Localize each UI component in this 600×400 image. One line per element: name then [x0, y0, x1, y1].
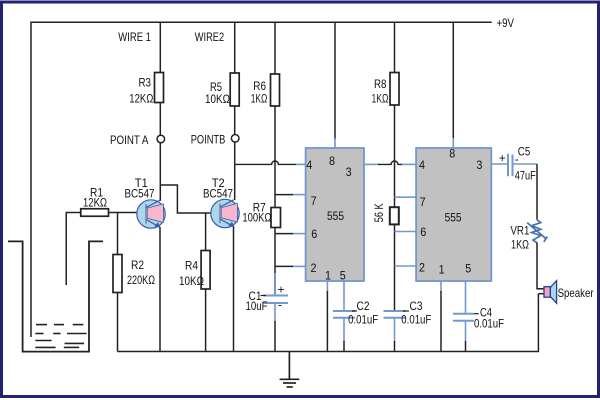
wire T1 emitter to rail	[159, 227, 161, 352]
svg-text:220KΩ: 220KΩ	[127, 273, 155, 287]
wire U1 pin5 to C2	[343, 281, 345, 311]
wire T2 collector junction to 555 U1 pin4 (hop over R6 line)	[235, 161, 297, 164]
svg-text:VR1: VR1	[510, 223, 529, 237]
capacitor C3	[384, 310, 406, 312]
svg-text:4: 4	[419, 158, 425, 172]
resistor R7	[271, 208, 281, 228]
svg-text:0.01uF: 0.01uF	[348, 313, 378, 327]
wire C4 to rail	[465, 321, 467, 342]
svg-text:BC547: BC547	[125, 186, 155, 200]
wire VR1 to speaker top terminal	[537, 243, 544, 289]
svg-text:BC547: BC547	[203, 186, 233, 200]
svg-text:+: +	[499, 151, 506, 165]
svg-text:C3: C3	[410, 299, 423, 313]
svg-text:10uF: 10uF	[246, 299, 268, 313]
wire R8 down to 56K (passes under hop)	[394, 105, 396, 207]
wire C5 to VR1	[513, 163, 538, 165]
wire U2 pin6 to 56K bottom	[395, 231, 417, 233]
svg-text:12KΩ: 12KΩ	[129, 91, 153, 105]
svg-text:1KΩ: 1KΩ	[372, 91, 389, 105]
wire U2 pin8 to +9V rail	[452, 22, 454, 140]
svg-text:1: 1	[325, 268, 331, 282]
svg-text:555: 555	[327, 209, 344, 223]
svg-text:1KΩ: 1KΩ	[251, 91, 268, 105]
resistor R2	[113, 255, 122, 293]
svg-text:5: 5	[340, 268, 346, 282]
svg-text:0.01uF: 0.01uF	[474, 317, 504, 331]
svg-text:3: 3	[346, 165, 352, 179]
resistor 56K	[390, 207, 399, 224]
svg-text:1KΩ: 1KΩ	[511, 237, 529, 251]
wire U1 pin2 to C1 line	[292, 265, 306, 267]
svg-text:555: 555	[445, 210, 462, 224]
svg-text:56 K: 56 K	[372, 203, 386, 222]
svg-text:2: 2	[419, 261, 425, 275]
wire T2 emitter to rail	[233, 227, 235, 352]
transistor T2	[211, 199, 239, 227]
wire C2 to rail	[343, 318, 345, 342]
resistor R3	[159, 22, 161, 72]
svg-text:R8: R8	[374, 77, 387, 91]
svg-text:1: 1	[439, 263, 445, 277]
svg-text:5: 5	[465, 261, 471, 275]
svg-text:8: 8	[449, 147, 455, 161]
wire junction down to R4	[205, 213, 207, 251]
svg-text:6: 6	[420, 225, 426, 239]
wire junction down to R2	[117, 213, 119, 255]
op-amp U1 555 body	[306, 148, 364, 281]
resistor R6	[274, 22, 276, 74]
wire T1 collector to T2 base	[160, 185, 211, 213]
svg-text:C2: C2	[357, 299, 370, 313]
svg-text:C5: C5	[518, 144, 531, 158]
wire U1 pin1 to rail	[326, 281, 328, 292]
wire U2 pin5 to C4	[465, 281, 467, 314]
resistor R8	[394, 22, 396, 72]
wire point A to T1 collector	[159, 143, 161, 201]
bottom rail	[118, 294, 539, 352]
capacitor C1	[263, 295, 288, 297]
wire R6 down to R7 (passes under hop)	[274, 106, 276, 208]
svg-text:R2: R2	[131, 258, 144, 272]
svg-text:7: 7	[311, 194, 317, 208]
svg-text:+9V: +9V	[497, 16, 515, 30]
wire R2 to bottom rail	[117, 293, 119, 352]
resistor R1	[81, 209, 109, 217]
wire R1 to T1 base	[109, 212, 138, 214]
wire R5 to point B	[234, 106, 236, 135]
svg-text:6: 6	[311, 227, 317, 241]
wire U2 pin1 to rail	[440, 281, 442, 292]
svg-text:R3: R3	[139, 76, 152, 90]
svg-text:47uF: 47uF	[515, 168, 536, 182]
variable resistor VR1	[532, 219, 541, 242]
op-amp U2 555 body	[416, 148, 491, 281]
capacitor C2	[333, 310, 355, 312]
wire C1 to bottom rail	[274, 273, 276, 296]
wire 56K down to C3	[394, 224, 396, 311]
svg-text:7: 7	[420, 195, 426, 209]
wire U2 pin3 to C5	[491, 163, 508, 165]
water tank	[8, 241, 103, 351]
svg-text:12KΩ: 12KΩ	[83, 196, 107, 210]
svg-text:-: -	[278, 297, 282, 311]
node POINT A	[157, 135, 165, 143]
speaker	[544, 287, 550, 298]
svg-text:Speaker: Speaker	[558, 286, 594, 300]
svg-text:+: +	[278, 283, 285, 297]
wire U1 pin3 to U2 pin4 (hop over R8 line)	[364, 163, 379, 165]
transistor T1	[137, 200, 165, 228]
wire point B to T2 collector	[234, 142, 236, 200]
svg-text:R4: R4	[185, 259, 198, 273]
svg-text:POINTB: POINTB	[191, 132, 226, 146]
svg-text:2: 2	[311, 261, 317, 275]
ground	[280, 352, 300, 388]
wire U2 pin7 to R8/56K junction	[395, 196, 417, 198]
svg-text:4: 4	[306, 158, 312, 172]
svg-text:10KΩ: 10KΩ	[205, 92, 230, 106]
svg-text:100KΩ: 100KΩ	[242, 210, 271, 224]
wire U2 pin2 to C3 line	[395, 265, 417, 267]
svg-text:10KΩ: 10KΩ	[179, 274, 204, 288]
capacitor C4	[453, 313, 474, 315]
svg-text:POINT A: POINT A	[110, 133, 148, 147]
wire U1 pin8 to +9V rail	[334, 22, 336, 140]
svg-text:0.01uF: 0.01uF	[401, 313, 431, 327]
node +9V top rail	[31, 22, 492, 337]
resistor R4	[201, 251, 210, 290]
wire rail to speaker bottom terminal	[538, 293, 544, 295]
wire C3 to rail	[394, 318, 396, 342]
water level dashes	[35, 325, 86, 348]
svg-text:WIRE 1: WIRE 1	[118, 30, 151, 44]
wire U1 pin7 to R7 top	[292, 194, 306, 196]
wire R7 down to C1	[274, 228, 276, 296]
svg-text:3: 3	[476, 158, 482, 172]
svg-text:8: 8	[329, 154, 335, 168]
node POINTB	[231, 135, 239, 143]
svg-text:WIRE2: WIRE2	[195, 30, 225, 44]
wire R3 to point A	[159, 103, 161, 136]
wire R4 to bottom rail	[205, 289, 207, 352]
wire probe 2 to R1	[66, 213, 81, 286]
wire U1 pin6 to R7 bottom	[292, 233, 306, 235]
resistor R5	[234, 22, 236, 73]
capacitor C5	[507, 154, 509, 177]
